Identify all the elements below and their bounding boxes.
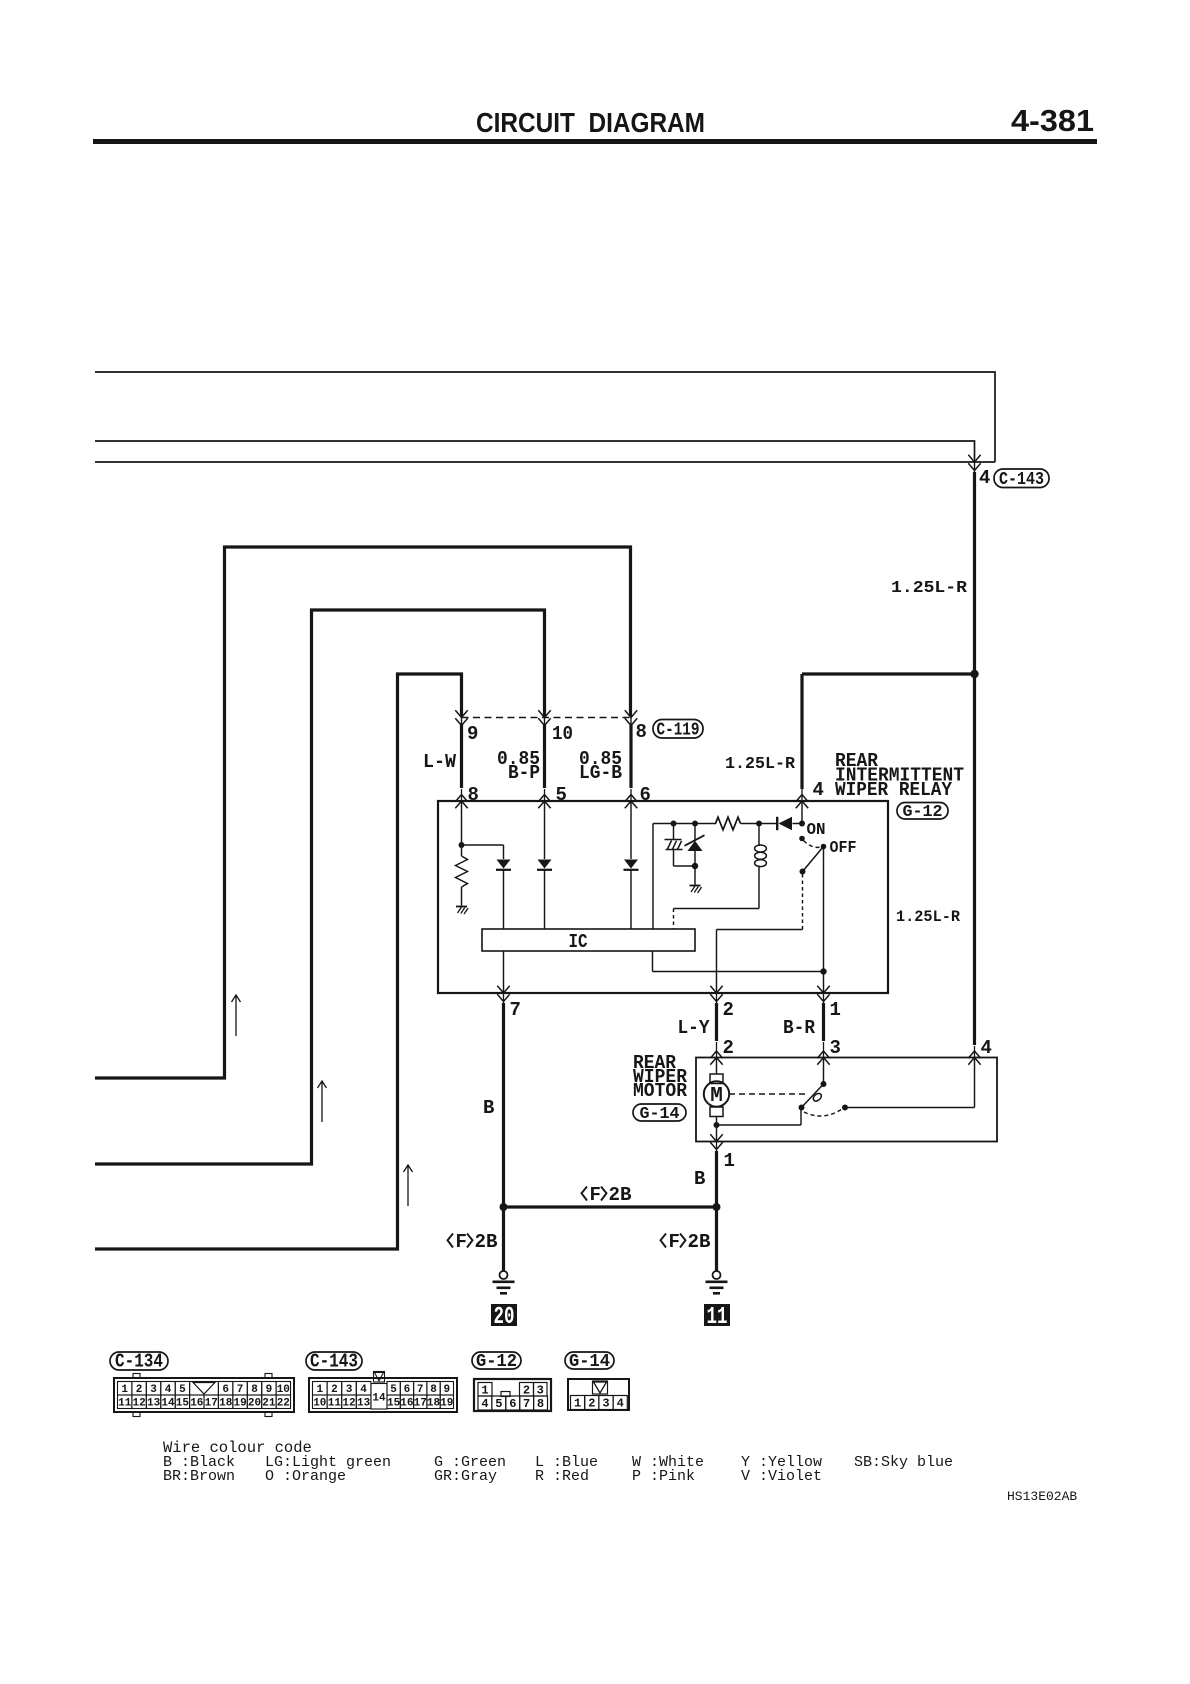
relay U1: rear intermittent wiper relay box [438,801,888,993]
ground point number 20 [491,1304,517,1331]
svg-text:3: 3 [830,1037,841,1059]
svg-text:B: B [694,1168,705,1190]
connector C-134 pin table [114,1374,294,1417]
svg-text:2: 2 [588,1397,595,1411]
svg-text:10: 10 [277,1384,290,1396]
svg-text:SB:Sky blue: SB:Sky blue [854,1454,953,1471]
svg-text:2: 2 [723,999,734,1021]
node: cam switch pivot [799,1105,805,1111]
svg-text:16: 16 [400,1398,413,1410]
wire: diode D1 column [503,845,505,929]
connector label C-134 [110,1351,168,1373]
wire: zener ZD1 branch [694,824,696,886]
wire: surge absorber Z1 branch [674,824,696,867]
svg-text:4: 4 [360,1384,367,1396]
svg-text:M: M [710,1085,723,1108]
svg-text:5: 5 [179,1384,186,1396]
direction arrow on hook 2 [318,1081,327,1122]
cam switch arm [802,1084,824,1108]
dashed arc: cam contact travel [804,1109,843,1117]
wire above resistor R1 [461,845,463,856]
svg-text:15: 15 [387,1398,401,1410]
wire label (F)2B (right drop) [661,1234,686,1248]
svg-text:9: 9 [467,723,478,745]
svg-text:C-134: C-134 [115,1351,163,1373]
svg-text:3: 3 [537,1384,544,1398]
node: Z1 top [671,821,677,827]
svg-text:20: 20 [494,1304,515,1331]
connector G-14 pin table [568,1379,629,1410]
direction arrow on hook 3 [404,1165,413,1206]
wire: coil L1 top/bottom leads [674,824,760,909]
svg-text:C-143: C-143 [999,470,1044,490]
svg-text:4: 4 [481,1397,488,1411]
svg-text:G-12: G-12 [476,1352,517,1372]
wire: relay pin 5 internal to diode D2 [544,801,546,929]
svg-text:7: 7 [417,1384,424,1396]
wire: top bus C [95,461,995,463]
svg-text:1: 1 [121,1384,128,1396]
diode D2 (pin 5 input) [537,860,552,871]
wire: motor pin 3 internal [823,1058,825,1085]
wire: relay pin 6 internal to diode D3 [630,801,632,929]
svg-text:2: 2 [723,1037,734,1059]
resistor R1 (pull-down on pin 8) [456,856,468,887]
motor pin 1 exit arrows [710,1134,722,1141]
dashed wire: switch pivot to pin 2 net [802,874,804,930]
svg-text:ON: ON [807,821,826,840]
svg-text:5: 5 [556,784,567,806]
wire: hook 3 from left page edge to C-119 pin 9 [95,674,462,1249]
resistor R2 (series, timer) [716,817,741,830]
thin pass of wires through C-119 [462,711,632,727]
connector label C-119 [653,720,703,741]
connector label C-143 [306,1351,362,1373]
connector C-143 pin table [309,1378,457,1412]
svg-text:1: 1 [481,1384,488,1398]
switch arm SW1 (relay contact) [803,847,824,872]
svg-text:B: B [483,1097,494,1119]
node: ground bus left [500,1203,508,1211]
wire: park contact to pin 4 [845,1058,975,1108]
wire: top bus A from other page [95,372,995,462]
wire L-Y from relay pin 2 [715,1003,718,1041]
thin pass of wires through motor top edge [717,1042,975,1058]
wire: IC to relay pin 7 [503,951,505,993]
svg-text:B-R: B-R [783,1017,816,1039]
svg-text:19: 19 [233,1398,246,1410]
dashed wire: coil output to IC [673,909,675,930]
cam switch arm hook [812,1092,823,1103]
svg-text:6: 6 [509,1397,516,1411]
svg-text:2: 2 [136,1384,143,1396]
svg-text:6: 6 [222,1384,229,1396]
svg-text:3: 3 [602,1397,609,1411]
zener diode ZD1 [688,841,703,851]
svg-text:2: 2 [331,1384,338,1396]
wire B from relay pin 7 [502,1003,505,1207]
relay pin 8 entry arrows [455,795,467,802]
wire label (F)2B (bus) [582,1187,607,1201]
wire: hook 1 from left page edge to C-119 pin 8 [95,547,631,1078]
svg-text:C-143: C-143 [310,1351,358,1373]
svg-text:12: 12 [342,1398,355,1410]
svg-text:14: 14 [372,1393,386,1405]
wire below resistor R1 [461,887,463,906]
svg-text:L-W: L-W [423,751,457,773]
svg-text:CIRCUIT DIAGRAM: CIRCUIT DIAGRAM [476,107,705,138]
wire: right ground drop [715,1207,718,1271]
svg-text:OFF: OFF [830,839,857,858]
wire: 1.25L-R continuing down to rear wiper motor pin 4 [973,674,976,1045]
svg-text:8: 8 [636,721,647,743]
svg-text:8: 8 [537,1397,544,1411]
node: park contact [842,1105,848,1111]
svg-text:4: 4 [981,1037,992,1059]
wire: motor to cam switch pivot [717,1108,802,1126]
svg-text:P :Pink: P :Pink [632,1468,695,1485]
svg-text:9: 9 [443,1384,450,1396]
wire: top bus B feeding C-143 pin 4 [95,441,975,459]
svg-text:MOTOR: MOTOR [633,1080,688,1102]
node: ZD1 top [692,821,698,827]
surge absorber Z1 (hatched box) [665,840,683,850]
relay pin 7 exit arrows [497,986,509,993]
svg-text:7: 7 [510,999,521,1021]
wire 0.85 LG-B to relay pin 6 [629,725,632,789]
svg-text:6: 6 [640,784,651,806]
relay pin 6 entry arrows [625,795,637,802]
wire: relay pin 4 internal [801,801,803,824]
svg-text:4-381: 4-381 [1011,103,1094,138]
node: coil top [756,821,762,827]
motor brush block (bottom) [710,1107,723,1117]
node: motor lower lead [714,1122,720,1128]
svg-text:V :Violet: V :Violet [741,1468,822,1485]
wire: relay pin 8 internal [461,801,463,845]
svg-text:11: 11 [118,1398,132,1410]
svg-text:9: 9 [266,1384,273,1396]
ground: body earth 20 [493,1271,515,1293]
node: pin8/R1/D1 [459,842,465,848]
svg-text:2: 2 [523,1384,530,1398]
svg-text:GR:Gray: GR:Gray [434,1468,497,1485]
svg-text:16: 16 [190,1398,203,1410]
svg-text:2B: 2B [688,1231,711,1253]
svg-text:12: 12 [132,1398,145,1410]
svg-text:5: 5 [495,1397,502,1411]
wire: node row at top of timer sub-circuit [653,823,802,825]
connector label G-14 (motor) [633,1104,686,1124]
svg-text:4: 4 [813,779,824,801]
node: switch pivot [800,869,806,875]
connector C-143 pin 4 pass-through arrows [968,455,980,462]
node: OFF contact [821,844,827,850]
node: ground bus right [713,1203,721,1211]
svg-text:4: 4 [165,1384,172,1396]
node: pin1 net junction [820,968,826,974]
ground: body earth 11 [706,1271,728,1293]
wire B from motor pin 1 [715,1151,718,1207]
relay pin 1 exit arrows [817,986,829,993]
svg-text:1: 1 [316,1384,323,1396]
svg-text:O :Orange: O :Orange [265,1468,346,1485]
diode D3 (pin 6 input) [624,860,639,871]
wire: motor pin 1 internal [716,1125,718,1142]
svg-text:3: 3 [346,1384,353,1396]
svg-text:1.25L-R: 1.25L-R [896,908,960,926]
coil L1 of relay [755,845,767,852]
wire: OFF contact down to pin 1 [823,847,825,994]
ground symbol (relay zener leg) [690,886,702,894]
motor armature circle [704,1081,729,1106]
connector label G-12 (relay) [897,803,948,823]
node: ON contact [799,836,805,842]
svg-text:21: 21 [262,1398,276,1410]
svg-text:4: 4 [617,1397,624,1411]
svg-text:G-14: G-14 [569,1352,610,1372]
wire 0.85 B-P to relay pin 5 [543,725,546,789]
svg-text:14: 14 [161,1398,175,1410]
wire 1.25L-R from C-143 down right side [974,459,976,474]
wire L-W to relay pin 8 [460,725,463,789]
svg-text:5: 5 [390,1384,397,1396]
wire label (F)2B (left drop) [448,1234,473,1248]
svg-text:IC: IC [569,931,588,953]
relay pin 5 entry arrows [538,795,550,802]
wire B-R from relay pin 1 [822,1003,825,1041]
node: pin 4 / diode D4 [799,821,805,827]
connector C-119 dashed line [462,717,632,719]
svg-text:18: 18 [219,1398,233,1410]
svg-text:10: 10 [552,723,573,745]
svg-text:8: 8 [251,1384,258,1396]
node: Z1/ZD1 bottom [692,863,698,869]
svg-text:LG-B: LG-B [579,762,622,784]
svg-text:1: 1 [574,1397,581,1411]
svg-text:G-14: G-14 [640,1105,680,1124]
thin pass of wires through relay top edge [462,789,803,801]
svg-text:15: 15 [176,1398,190,1410]
op-amp/IC U2: relay IC box [482,929,695,953]
dashed arc: contact travel ON to OFF [804,841,822,848]
svg-text:1: 1 [724,1150,735,1172]
C-119 pin 10 arrows [538,710,550,717]
relay pin 4 entry arrows [796,795,808,802]
diode D1 (pin 8 input) [496,860,511,871]
svg-text:8: 8 [468,784,479,806]
motor M1: rear wiper motor box [696,1058,997,1142]
connector label G-12 [472,1352,521,1372]
wire: pin 2 net [717,930,803,994]
svg-text:10: 10 [313,1398,326,1410]
svg-text:3: 3 [150,1384,157,1396]
ground point number 11 [704,1304,730,1331]
motor brush block (top) [710,1074,723,1084]
motor pin 3 entry arrows [817,1051,829,1058]
svg-text:F: F [590,1184,601,1206]
wire: ground bus (F)2B [504,1205,717,1208]
wire: IC output to pin 1 net [653,951,824,972]
direction arrow on hook 1 [232,995,241,1036]
svg-text:11: 11 [707,1304,728,1331]
wire: hook 2 from left page edge to C-119 pin 10 [95,610,545,1164]
svg-text:WIPER RELAY: WIPER RELAY [835,779,953,801]
wire: feed to relay pin 4 [802,674,975,789]
svg-text:11: 11 [328,1398,342,1410]
legend: wire colour code [163,1439,953,1485]
svg-text:22: 22 [277,1398,290,1410]
svg-text:L-Y: L-Y [678,1017,711,1039]
svg-text:7: 7 [523,1397,530,1411]
ground symbol (relay R1 leg) [456,907,468,915]
wire: motor pin 2 internal [716,1058,718,1075]
thin pass of wires through relay bottom edge [504,993,824,1004]
motor pin 4 entry arrows [968,1051,980,1058]
svg-text:1.25L-R: 1.25L-R [725,755,796,774]
header rule [93,139,1097,144]
svg-text:2B: 2B [609,1184,632,1206]
svg-text:18: 18 [427,1398,441,1410]
dashed wire: motor to cam switch mechanical link [729,1093,805,1095]
svg-text:17: 17 [205,1398,218,1410]
connector G-12 pin table [474,1379,551,1411]
svg-text:BR:Brown: BR:Brown [163,1468,235,1485]
wire: branch node 8 to diode column [462,844,504,846]
svg-text:G-12: G-12 [903,803,943,822]
svg-text:1.25L-R: 1.25L-R [891,579,968,598]
svg-text:6: 6 [404,1384,411,1396]
svg-text:2B: 2B [475,1231,498,1253]
wire: left leg of timer sub-circuit down to IC [652,824,654,930]
C-119 pin 8 arrows [625,710,637,717]
svg-text:19: 19 [440,1398,453,1410]
junction: node at right feed split [970,670,978,678]
wire: left ground drop [502,1207,505,1271]
connector label G-14 [565,1352,614,1372]
svg-text:8: 8 [430,1384,437,1396]
svg-text:C-119: C-119 [657,721,700,741]
C-119 pin 9 arrows [455,710,467,717]
svg-text:17: 17 [414,1398,427,1410]
connector label C-143 [994,469,1049,490]
svg-text:20: 20 [248,1398,261,1410]
svg-text:4: 4 [979,467,990,489]
svg-text:13: 13 [357,1398,371,1410]
diode D4 (series with coil feed) [779,817,793,830]
svg-text:13: 13 [147,1398,161,1410]
svg-text:F: F [669,1231,680,1253]
svg-text:7: 7 [237,1384,244,1396]
svg-text:HS13E02AB: HS13E02AB [1007,1489,1077,1504]
wire: motor lower lead [716,1117,718,1126]
svg-text:1: 1 [830,999,841,1021]
svg-text:B-P: B-P [508,762,540,784]
relay pin 2 exit arrows [710,986,722,993]
svg-text:R :Red: R :Red [535,1468,589,1485]
svg-text:F: F [456,1231,467,1253]
thin pass of wire through motor bottom edge [716,1142,718,1153]
motor pin 2 entry arrows [710,1051,722,1058]
node: cam switch common (pin 3) [821,1081,827,1087]
